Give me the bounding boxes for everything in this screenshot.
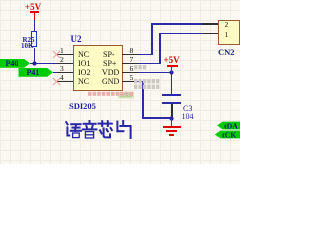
- pin 1 stub: [57, 54, 73, 56]
- pin name IO2 (3): [78, 68, 90, 77]
- wire P40 to pin2: [30, 63, 57, 64]
- wire P41 to pin3: [53, 72, 57, 73]
- watermark (faint green stamp block): [118, 92, 135, 99]
- CN2 pin number 2: [225, 20, 229, 29]
- port tDA: [216, 121, 240, 130]
- C3 designator: [183, 104, 192, 113]
- no-ERC X pin4: [52, 77, 61, 86]
- resistor R25: [31, 31, 36, 47]
- wire +5V to R25: [34, 20, 35, 31]
- pin name SP+ (7): [103, 59, 116, 68]
- power +5V (right): [164, 55, 180, 65]
- pin name NC (4): [78, 77, 89, 86]
- wire pin7 to CN2 pin1: [138, 63, 161, 64]
- CN2 pin 1 stub: [202, 33, 218, 35]
- wire pin5 down and right to ground node: [138, 81, 144, 82]
- capacitor C3: [162, 94, 181, 96]
- svg-text:P41: P41: [27, 68, 40, 77]
- pin 3 stub: [57, 72, 73, 74]
- ground: [171, 118, 173, 126]
- wire +5V node down to C3: [171, 72, 172, 94]
- port tCK: [213, 130, 240, 139]
- SDI205 value: [69, 101, 96, 111]
- pin 2 stub: [57, 63, 73, 65]
- watermark (faint gray stamp rows): [133, 64, 163, 90]
- no-ERC X pin1: [52, 50, 61, 59]
- port P40: [0, 58, 32, 69]
- pin 7 stub: [122, 63, 138, 65]
- U2 designator: [71, 34, 82, 44]
- connector CN2 body: [218, 20, 240, 46]
- 片: [116, 122, 118, 132]
- pin number 5: [130, 73, 134, 82]
- CN2 designator: [218, 47, 235, 57]
- wire pin6 to +5V node: [138, 72, 172, 73]
- 芯: [101, 121, 103, 126]
- pin number 6: [130, 64, 134, 73]
- svg-text:P40: P40: [6, 59, 19, 68]
- caption 语音芯片 (hand-drawn strokes): [63, 119, 134, 141]
- pin name VDD (6): [102, 68, 119, 77]
- pin name GND (5): [102, 77, 119, 86]
- chip U2 body: [73, 45, 123, 92]
- pin 4 stub: [57, 81, 73, 83]
- pin 5 stub: [122, 81, 138, 83]
- CN2 pin number 1: [225, 30, 229, 39]
- pin 6 stub: [122, 72, 138, 74]
- CN2 pin 2 stub: [202, 23, 218, 25]
- pin name SP- (8): [103, 50, 115, 59]
- watermark (faint pink text row): [88, 91, 134, 97]
- 音: [89, 121, 91, 123]
- wire R25 to P40 net: [34, 48, 35, 65]
- pin number 4: [60, 73, 64, 82]
- pin 8 stub: [122, 54, 138, 56]
- pin number 8: [130, 46, 134, 55]
- junction (pin6 / +5V / C3): [169, 70, 174, 75]
- pin name NC (1): [78, 50, 89, 59]
- junction (R25 / P40 net): [32, 61, 37, 66]
- pin number 3: [60, 64, 64, 73]
- 语: [66, 122, 67, 124]
- pin number 1: [60, 46, 64, 55]
- power +5V (left, above R25): [25, 2, 41, 12]
- pin number 7: [130, 55, 134, 64]
- pin name IO1 (2): [78, 59, 90, 68]
- port P41: [18, 67, 54, 78]
- pin number 2: [60, 55, 64, 64]
- svg-text:tCK: tCK: [222, 130, 236, 139]
- junction (C3 / pin5 / ground): [169, 116, 174, 121]
- wire pin8 to CN2 pin2 (horizontal, riser, top run): [138, 54, 153, 55]
